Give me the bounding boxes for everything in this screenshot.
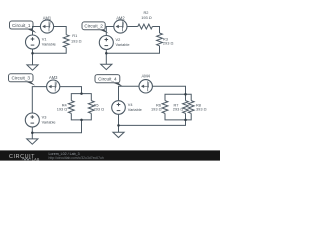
voltage source V2: [99, 36, 113, 50]
flag tail Circuit_4: [112, 82, 124, 87]
flag Circuit_2: [82, 22, 105, 30]
node junction C1: [31, 52, 34, 55]
svg-text:Variable: Variable: [128, 107, 142, 112]
label R2 193Ω: [141, 10, 152, 20]
svg-text:293 Ω: 293 Ω: [163, 41, 174, 46]
flag Circuit_4: [95, 75, 120, 83]
wire R1 bottom to bottom rail: [33, 48, 67, 54]
wire V4 top to AM4 left: [119, 86, 139, 101]
svg-text:Circuit_4: Circuit_4: [98, 77, 117, 82]
resistor R5: [88, 101, 94, 114]
svg-text:AM2: AM2: [116, 15, 125, 20]
ground GND2: [101, 64, 112, 69]
wire V3 bottom to ground: [31, 127, 33, 139]
label R6 193Ω: [151, 102, 162, 111]
label V1 Variable: [42, 36, 56, 46]
wire V3 top to AM3 left: [32, 87, 46, 114]
svg-text:V3: V3: [42, 114, 47, 119]
wire V2 top to AM2 left: [106, 27, 114, 36]
ground GND3: [27, 139, 38, 144]
svg-text:AM3: AM3: [49, 75, 58, 80]
wire R2 right to R3 top: [152, 27, 159, 34]
resistor R6: [162, 101, 168, 114]
label R5 293Ω: [94, 102, 105, 111]
wire V4 bottom to ground: [118, 114, 120, 132]
svg-text:293 Ω: 293 Ω: [173, 107, 184, 112]
ammeter AM2: [114, 20, 127, 33]
svg-text:LAB: LAB: [32, 158, 40, 162]
flag tail Circuit_1: [25, 28, 37, 33]
ammeter AM4: [139, 80, 152, 93]
svg-text:293 Ω: 293 Ω: [94, 107, 105, 112]
label R7 293Ω: [173, 102, 184, 111]
node junction bottom C3: [80, 119, 83, 122]
svg-text:V2: V2: [116, 37, 121, 42]
wire AM3 right to parallel feed: [60, 87, 82, 94]
svg-text:R1: R1: [72, 33, 77, 38]
wire exit to V3 junction: [32, 120, 81, 133]
resistor R8: [188, 101, 194, 114]
label V4 Variable: [128, 102, 142, 112]
svg-text:393 Ω: 393 Ω: [196, 107, 207, 112]
label R4 193Ω: [57, 102, 68, 111]
wire AM1 right to R1 top: [54, 27, 67, 35]
resistor R7: [183, 101, 189, 114]
label R3 293Ω: [163, 36, 174, 45]
node junction bottom C4: [184, 119, 187, 122]
svg-text:Circuit_2: Circuit_2: [84, 24, 103, 29]
wire parallel top rail C4: [165, 94, 191, 100]
svg-text:AM1: AM1: [43, 15, 52, 20]
node junction top C4: [184, 93, 187, 96]
label V2 Variable: [116, 37, 130, 47]
node junction top C3: [80, 92, 83, 95]
svg-text:V4: V4: [128, 102, 134, 107]
svg-text:R2: R2: [144, 10, 149, 15]
svg-text:Variable: Variable: [116, 42, 130, 47]
voltage source V3: [25, 113, 39, 127]
label R1 193Ω: [71, 33, 82, 43]
svg-text:Variable: Variable: [42, 120, 56, 125]
label V3 Variable: [42, 114, 56, 124]
wire parallel bottom rail: [71, 113, 91, 120]
wire R7 bottom stub: [185, 113, 187, 120]
flag tail Circuit_2: [97, 29, 109, 34]
ground GND4: [113, 132, 124, 137]
wire V1 top to AM1 left: [33, 27, 41, 36]
wire AM2 right to R2 left: [127, 26, 138, 28]
resistor R2: [138, 24, 153, 29]
flag Circuit_1: [10, 21, 34, 29]
flag tail Circuit_3: [24, 81, 35, 86]
svg-text:http://circuitlab.com/c/32u3d7: http://circuitlab.com/c/32u3d7ec67uh: [49, 156, 104, 160]
svg-text:Circuit_3: Circuit_3: [12, 76, 31, 81]
wire parallel top rail: [71, 94, 91, 101]
svg-text:193 Ω: 193 Ω: [151, 107, 162, 112]
svg-text:AM4: AM4: [141, 74, 150, 79]
wire V1 bottom to ground: [32, 49, 34, 65]
wire AM4 right to parallel feed: [153, 86, 186, 94]
resistor R3: [157, 33, 163, 46]
ammeter AM1: [40, 20, 53, 33]
node junction V4: [117, 124, 120, 127]
wire V2 bottom to ground: [105, 50, 107, 65]
voltage source V1: [26, 35, 40, 49]
wire R7 top stub: [185, 94, 187, 100]
svg-text:V1: V1: [42, 36, 47, 41]
svg-text:Variable: Variable: [42, 42, 56, 47]
svg-text:Circuit_1: Circuit_1: [12, 23, 31, 28]
ground GND1: [27, 65, 38, 70]
wire exit to V4 junction: [119, 120, 186, 126]
wire parallel bottom rail C4: [165, 113, 191, 120]
resistor R1: [63, 35, 69, 48]
voltage source V4: [112, 101, 126, 115]
node junction C2: [105, 52, 108, 55]
label R8 393Ω: [196, 102, 207, 111]
svg-text:193 Ω: 193 Ω: [141, 15, 152, 20]
resistor R4: [68, 101, 74, 114]
node junction V3: [31, 132, 34, 135]
flag Circuit_3: [9, 74, 34, 82]
svg-text:193 Ω: 193 Ω: [57, 107, 68, 112]
ammeter AM3: [47, 80, 60, 93]
svg-text:193 Ω: 193 Ω: [71, 38, 82, 43]
wire R3 bottom to V2 junction: [106, 46, 159, 54]
